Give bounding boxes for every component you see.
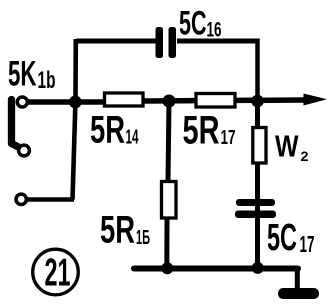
svg-text:5R: 5R — [100, 209, 135, 252]
svg-text:1b: 1b — [38, 67, 56, 94]
svg-text:21: 21 — [45, 252, 71, 295]
svg-text:5C: 5C — [267, 217, 297, 259]
svg-text:17: 17 — [300, 231, 315, 257]
svg-text:1Б: 1Б — [136, 227, 150, 249]
svg-text:16: 16 — [207, 19, 222, 42]
svg-text:17: 17 — [221, 127, 236, 149]
svg-text:5R: 5R — [90, 109, 125, 152]
svg-text:2: 2 — [301, 148, 309, 164]
svg-text:5R: 5R — [183, 109, 220, 153]
svg-text:W: W — [275, 129, 299, 164]
svg-text:14: 14 — [126, 127, 140, 149]
svg-text:5C: 5C — [179, 5, 207, 43]
svg-text:5K: 5K — [8, 55, 37, 94]
